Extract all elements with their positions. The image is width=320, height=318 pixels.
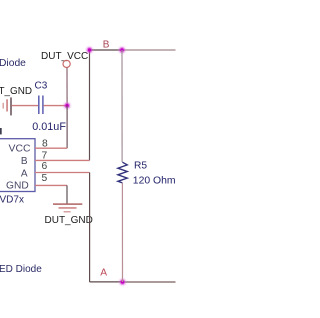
junction node B / R5 [118,46,127,55]
ground symbol DUT_GND bar 2 [59,207,77,208]
svg-text:A: A [100,268,107,279]
wire junction down to pin 8 [66,106,68,149]
resistor R5 zigzag [118,162,127,183]
svg-text:T_GND: T_GND [0,86,32,97]
junction C3 / VCC net [63,101,72,110]
junction at DUT_VCC tap [85,46,94,55]
svg-text:Diode: Diode [0,58,26,69]
ground symbol DUT_GND rotated bar 1 [10,97,12,115]
wire VCC stem [66,68,68,106]
ground symbol DUT_GND rotated bar 2 [6,99,8,111]
svg-text:R5: R5 [134,160,147,171]
wire B to R5 [121,50,123,162]
wire C3 to junction [44,105,68,107]
svg-text:ED Diode: ED Diode [0,264,42,275]
svg-text:B: B [21,156,28,167]
wire net A vertical [89,173,91,282]
power symbol VCC circle [63,60,70,67]
wire ground to C3 [12,105,39,107]
wire pin 5 stub [35,184,67,186]
wire R5 to node A [121,183,123,282]
svg-text:VCC: VCC [9,143,31,154]
svg-text:C3: C3 [35,81,48,92]
op IC U? box [0,139,35,192]
junction node A [118,278,127,287]
wire bottom bus right [123,281,176,283]
svg-text:A: A [21,169,28,180]
pin fragment left edge [0,128,2,134]
ground symbol DUT_GND bar 3 [64,211,71,212]
wire net B vertical [89,50,91,160]
svg-text:B: B [103,39,110,50]
svg-text:120 Ohm: 120 Ohm [133,176,176,187]
svg-text:7: 7 [42,150,48,161]
svg-text:GND: GND [6,180,29,191]
svg-text:VD7x: VD7x [0,194,24,205]
svg-text:5: 5 [42,173,48,184]
wire top bus left [90,49,123,51]
wire pin 5 to ground [66,185,68,203]
svg-text:0.01uF: 0.01uF [32,121,66,133]
ground symbol DUT_GND bar 1 [53,203,82,204]
ground symbol DUT_GND rotated bar 3 [3,103,4,109]
svg-text:6: 6 [42,161,48,172]
svg-text:DUT_GND: DUT_GND [45,215,93,226]
wire pin 6 stub [35,172,90,174]
wire bottom bus left [90,281,123,283]
wire top bus right [122,49,176,51]
wire pin 7 stub [35,159,90,161]
capacitor C3 plates [39,96,43,115]
wire pin 8 stub [35,147,67,149]
